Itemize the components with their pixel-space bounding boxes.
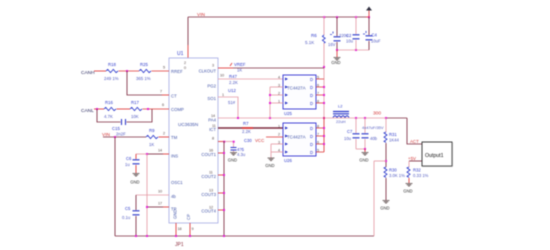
value 2n2F bbox=[116, 132, 126, 137]
label U1 bbox=[177, 51, 184, 57]
value 4.7K bbox=[104, 114, 113, 119]
pin label CLKOUT bbox=[199, 69, 217, 74]
junction x270 pin 2 bbox=[269, 94, 271, 96]
svg-text:R6: R6 bbox=[311, 33, 317, 38]
svg-text:RREF: RREF bbox=[171, 69, 183, 74]
svg-text:C15: C15 bbox=[112, 126, 120, 131]
wire stub pin 13 bbox=[218, 192, 224, 194]
pin label TP bbox=[171, 207, 177, 212]
value 4.3u bbox=[237, 152, 246, 157]
wire pin 10 row bbox=[136, 194, 169, 196]
wire left vertical to bottom bus bbox=[114, 137, 116, 236]
junction x224 at pin 12 bbox=[223, 209, 225, 211]
svg-text:C6: C6 bbox=[126, 156, 132, 161]
wire U1 bottom pin 9 bbox=[189, 223, 191, 236]
svg-text:R17: R17 bbox=[131, 100, 139, 105]
pin label REF bbox=[171, 69, 183, 74]
value 10u left bbox=[344, 136, 352, 141]
resistor R9 bbox=[146, 135, 158, 138]
junction R6 to VREF wire bbox=[323, 66, 325, 68]
capacitor C7 branch bbox=[355, 118, 357, 149]
svg-text:D: D bbox=[310, 85, 313, 90]
value 16V bbox=[328, 42, 336, 47]
svg-text:L2: L2 bbox=[338, 104, 343, 109]
svg-text:0.33 1%: 0.33 1% bbox=[413, 173, 429, 178]
junction y118 at x270 bbox=[269, 117, 271, 119]
ground below R32 bbox=[403, 184, 412, 194]
junction C21 bottom bbox=[355, 49, 357, 51]
wire R17 to pin 6 bbox=[143, 108, 170, 110]
svg-text:GND: GND bbox=[173, 209, 178, 219]
pin label COUT2 bbox=[201, 174, 216, 179]
label L2 bbox=[338, 104, 343, 109]
U25 left pin numbers bbox=[278, 76, 280, 104]
junction VIN row bbox=[114, 136, 116, 138]
node CANH label bbox=[81, 70, 95, 76]
wire inductor to corner bbox=[333, 117, 407, 119]
resistor R16 bbox=[104, 107, 116, 110]
ground below R30 bbox=[380, 201, 389, 211]
svg-text:0: 0 bbox=[184, 66, 186, 70]
svg-text:U26: U26 bbox=[284, 158, 292, 163]
ground below U26 bbox=[265, 158, 274, 168]
capacitor C30 plates bbox=[231, 148, 237, 151]
pin label PG2 bbox=[207, 84, 216, 89]
wire x324 vertical lower bbox=[323, 117, 325, 152]
junction y118 at C7 bbox=[355, 117, 357, 119]
svg-text:R32: R32 bbox=[413, 168, 421, 173]
capacitor C30 drop branch bbox=[233, 142, 235, 153]
wire pin 14 long row to inductor bbox=[218, 117, 333, 119]
svg-text:2.2K: 2.2K bbox=[229, 80, 238, 85]
wire corner to Output pin 1 bbox=[407, 118, 422, 144]
pin number 1 right bbox=[222, 93, 224, 97]
pin label COUT3 bbox=[201, 192, 216, 197]
svg-text:GND: GND bbox=[265, 163, 274, 168]
junction bus at pin 9 bbox=[189, 235, 191, 237]
svg-text:R9: R9 bbox=[149, 128, 155, 133]
svg-text:GND: GND bbox=[130, 180, 139, 185]
capacitor C8 branch bbox=[364, 118, 366, 149]
svg-text:4x47uF/35V: 4x47uF/35V bbox=[362, 125, 384, 130]
pin number 2 bbox=[163, 132, 165, 136]
label R7 bbox=[243, 121, 249, 126]
wire VREF pin 3 to R6 bbox=[218, 67, 324, 69]
label C30 bbox=[244, 138, 252, 143]
U26 left pin numbers bbox=[278, 125, 280, 153]
value 2.2K row2 bbox=[242, 129, 251, 134]
pin number 15 right bbox=[209, 171, 213, 175]
junction y118 at x324 bbox=[323, 117, 325, 119]
junction on bus at C20 bbox=[336, 16, 338, 18]
svg-text:CP: CP bbox=[186, 214, 191, 220]
value 4x47uF/35V bbox=[362, 125, 384, 130]
pin label SO1 bbox=[207, 96, 216, 101]
svg-text:Output1: Output1 bbox=[425, 153, 444, 159]
svg-text:1u: 1u bbox=[125, 162, 130, 167]
svg-text:C7: C7 bbox=[347, 129, 353, 134]
connector Output1 box bbox=[422, 142, 453, 167]
wire stub pin 15 bbox=[218, 174, 224, 176]
junction bus at x147 bbox=[146, 235, 148, 237]
wire x374 vertical to bus bbox=[373, 161, 375, 236]
svg-text:D: D bbox=[310, 77, 313, 82]
pin number 12 right bbox=[209, 206, 213, 210]
svg-text:10u: 10u bbox=[346, 39, 354, 44]
value 5.1K bbox=[305, 40, 314, 45]
svg-text:U25: U25 bbox=[284, 111, 292, 116]
pin label SA bbox=[171, 194, 176, 199]
svg-text:0.1u: 0.1u bbox=[122, 215, 131, 220]
svg-text:2.2K: 2.2K bbox=[242, 129, 251, 134]
capacitor C21 plates bbox=[353, 35, 360, 39]
svg-text:COUT3: COUT3 bbox=[201, 192, 216, 197]
wire U1 bottom pin 18 bbox=[175, 223, 177, 236]
svg-text:1K: 1K bbox=[237, 68, 242, 73]
pin number 11 right bbox=[212, 124, 216, 128]
pin number 5 bbox=[163, 66, 165, 70]
wire U25 pin 3 stub bbox=[270, 86, 283, 88]
label R47 bbox=[229, 74, 237, 79]
svg-text:7: 7 bbox=[160, 90, 162, 94]
label R31 bbox=[389, 132, 397, 137]
wire CANL to R16 bbox=[94, 108, 104, 110]
wire U26 right pin stubs bbox=[316, 128, 324, 152]
wire R9 to pin 2 bbox=[159, 136, 170, 138]
wire Output pin 2 row bbox=[409, 160, 422, 162]
capacitor C20 vertical branch bbox=[336, 17, 338, 50]
pin label COUT4 bbox=[201, 209, 216, 214]
pin number 8 right bbox=[212, 137, 214, 141]
junction x147 at pin 17 bbox=[146, 206, 148, 208]
svg-text:51#: 51# bbox=[228, 100, 236, 105]
pin number 9 bbox=[192, 227, 194, 231]
wire U25 right pin stubs bbox=[316, 79, 324, 103]
power symbol VCC arrow bbox=[366, 7, 372, 18]
resistor R6 bbox=[322, 35, 325, 43]
svg-text:5: 5 bbox=[163, 66, 165, 70]
junction x324 U26 outputs bbox=[323, 127, 325, 145]
wire R25 to pin 5 bbox=[152, 70, 170, 72]
svg-text:PA4: PA4 bbox=[208, 118, 216, 123]
wire pin 14 row bbox=[136, 153, 163, 155]
junction x224 at pin 15 bbox=[223, 174, 225, 176]
label C21 bbox=[346, 33, 352, 38]
resistor R30 bbox=[384, 167, 387, 177]
svg-text:C5: C5 bbox=[125, 206, 131, 211]
svg-text:2: 2 bbox=[278, 133, 280, 137]
wire pin 17 row bbox=[147, 206, 163, 208]
wire CANL filter loop bbox=[97, 109, 152, 122]
svg-text:10u: 10u bbox=[344, 136, 352, 141]
wire CANH to R18 bbox=[94, 70, 106, 72]
svg-text:4: 4 bbox=[278, 76, 280, 80]
svg-text:VCC: VCC bbox=[255, 138, 264, 143]
svg-text:R30: R30 bbox=[389, 168, 397, 173]
value 244 bbox=[389, 138, 399, 143]
capacitor C4 vertical branch bbox=[368, 17, 370, 50]
value 10K bbox=[131, 114, 139, 119]
wire U25 pin 2 stub bbox=[270, 94, 283, 96]
label R18 bbox=[108, 62, 116, 67]
svg-text:GND: GND bbox=[403, 189, 412, 194]
value 0.33 1% bbox=[413, 173, 429, 178]
junction divider mid bbox=[385, 160, 387, 162]
wire R30 to ground bbox=[385, 178, 387, 200]
wire top supply bus bbox=[188, 16, 369, 18]
wire stub pin 14 bbox=[163, 153, 169, 155]
pin label CP vertical bbox=[186, 214, 191, 220]
wire pin 10 to U25 pin 4 bbox=[218, 78, 283, 80]
U26 right pin numbers bbox=[317, 125, 319, 153]
svg-text:OSC1: OSC1 bbox=[171, 180, 183, 185]
svg-text:11: 11 bbox=[209, 171, 213, 175]
pin label OSC bbox=[171, 180, 183, 185]
label R9 bbox=[149, 128, 155, 133]
label R16 bbox=[105, 100, 113, 105]
wire R32 to ground bbox=[408, 178, 410, 183]
wire stub pin 12 bbox=[218, 209, 224, 211]
capacitor C5 plates bbox=[133, 211, 140, 215]
svg-text:GND: GND bbox=[331, 60, 340, 65]
svg-text:VIN: VIN bbox=[197, 12, 206, 18]
junction bus at x224 bbox=[223, 235, 225, 237]
svg-text:18: 18 bbox=[178, 227, 182, 231]
svg-text:GND: GND bbox=[380, 206, 389, 211]
wire from bus to U1 pin 20 bbox=[187, 17, 189, 58]
connector JP1 label bbox=[175, 242, 184, 248]
svg-text:1: 1 bbox=[278, 125, 280, 129]
svg-text:R47: R47 bbox=[229, 74, 237, 79]
wire pin 1 corner to y118 bbox=[218, 97, 238, 118]
label C7 bbox=[347, 129, 353, 134]
svg-text:4.3u: 4.3u bbox=[237, 152, 246, 157]
svg-text:GND: GND bbox=[228, 158, 237, 163]
junction C20 bottom bbox=[336, 49, 338, 51]
wire R6 branch vertical bbox=[323, 17, 325, 117]
ground below caps bbox=[359, 149, 368, 163]
U25 name TC4427A bbox=[287, 86, 306, 91]
svg-text:16: 16 bbox=[209, 149, 213, 153]
pin number 7 bbox=[160, 90, 162, 94]
svg-text:249 1%: 249 1% bbox=[104, 76, 119, 81]
svg-text:ACT: ACT bbox=[410, 139, 419, 144]
value 1K bbox=[149, 142, 154, 147]
svg-text:22uH: 22uH bbox=[336, 119, 346, 124]
label U26 bbox=[284, 158, 292, 163]
junction x270 pin 1 bbox=[269, 102, 271, 104]
pin label CT bbox=[171, 94, 177, 99]
svg-text:R18: R18 bbox=[108, 62, 116, 67]
junction bus at C5 bbox=[135, 235, 137, 237]
capacitor C7 plates bbox=[353, 134, 360, 138]
wire x271 vertical to ground bbox=[270, 144, 272, 158]
svg-text:U1: U1 bbox=[177, 51, 184, 57]
node 300 label bbox=[373, 111, 381, 117]
svg-text:D: D bbox=[310, 150, 313, 155]
svg-text:R25: R25 bbox=[140, 62, 148, 67]
driver U26 box bbox=[283, 123, 316, 156]
junction y118 at divider bbox=[385, 117, 387, 119]
svg-text:U12: U12 bbox=[228, 88, 236, 93]
junction pin 14 row bbox=[146, 153, 148, 155]
svg-text:JP1: JP1 bbox=[175, 242, 184, 248]
value 51 bbox=[228, 100, 236, 105]
svg-text:2n2F: 2n2F bbox=[116, 132, 126, 137]
wire stub pin 8 bbox=[218, 141, 234, 143]
svg-text:R7: R7 bbox=[243, 121, 249, 126]
value 0.1u bbox=[122, 215, 131, 220]
junction at pin 6 wire bbox=[147, 108, 149, 110]
svg-text:365 1%: 365 1% bbox=[136, 76, 151, 81]
node +24V label bbox=[410, 139, 419, 144]
junction on bus at C21 bbox=[355, 16, 357, 18]
svg-text:D: D bbox=[310, 126, 313, 131]
svg-text:R31: R31 bbox=[389, 132, 397, 137]
node VCC label red bbox=[255, 138, 264, 143]
svg-text:10: 10 bbox=[220, 74, 224, 78]
node +5V label bbox=[408, 156, 416, 161]
capacitor C20 plates bbox=[330, 32, 341, 41]
svg-text:3: 3 bbox=[212, 64, 214, 68]
svg-text:C4: C4 bbox=[372, 33, 378, 38]
IC name UC3635N bbox=[178, 122, 198, 127]
svg-text:40b: 40b bbox=[370, 136, 378, 141]
junction CANL branch bbox=[96, 108, 98, 110]
wire feedback tap bbox=[374, 160, 386, 162]
pin 20 number at top bbox=[184, 61, 186, 70]
resistor R32 branch bbox=[408, 161, 410, 167]
wire U26 pin 3 stub bbox=[271, 143, 283, 145]
pin number 10 right bbox=[220, 74, 224, 78]
wire C7 C8 bottom join bbox=[356, 148, 365, 150]
wire x147 vertical to bus bbox=[146, 154, 148, 236]
svg-text:14: 14 bbox=[158, 149, 162, 153]
pin number 14 bbox=[158, 149, 162, 153]
svg-text:1K: 1K bbox=[149, 142, 154, 147]
value 10u bbox=[346, 39, 354, 44]
label C4 bbox=[372, 33, 378, 38]
capacitor C6 plates bbox=[133, 160, 140, 164]
U26 input arrows bbox=[285, 127, 288, 154]
wire pin 11 bold to U26 pin 1 bbox=[218, 127, 283, 129]
junction x224 at pin 13 bbox=[223, 192, 225, 194]
wire R18 to R25 bbox=[119, 70, 140, 72]
svg-text:VREF: VREF bbox=[234, 62, 246, 67]
junction on bus at C4 bbox=[368, 16, 370, 18]
resistor R18 bbox=[106, 69, 118, 72]
svg-text:12: 12 bbox=[209, 206, 213, 210]
svg-text:1K44: 1K44 bbox=[389, 138, 399, 143]
junction x224 at pin 16 bbox=[223, 152, 225, 154]
wire bottom bus bbox=[115, 235, 374, 237]
capacitor C21 vertical branch bbox=[355, 17, 357, 50]
svg-text:D: D bbox=[310, 142, 313, 147]
svg-text:10K: 10K bbox=[131, 114, 139, 119]
svg-text:11: 11 bbox=[212, 124, 216, 128]
resistor R17 bbox=[130, 107, 142, 110]
svg-text:14: 14 bbox=[211, 114, 215, 118]
wire U25 pin 1 stub bbox=[270, 102, 283, 104]
svg-text:300: 300 bbox=[373, 111, 381, 117]
resistor R31 bbox=[384, 132, 387, 142]
svg-text:R16: R16 bbox=[105, 100, 113, 105]
wire x224 vertical to bus bbox=[223, 141, 225, 236]
value 10uF bbox=[371, 39, 381, 44]
value 2.2K bbox=[229, 80, 238, 85]
inductor L2 core bars bbox=[333, 112, 349, 114]
pin number 3 bbox=[212, 64, 214, 68]
wire U26 pin 2 row bbox=[266, 136, 283, 138]
svg-text:+5V: +5V bbox=[408, 156, 416, 161]
svg-text:10: 10 bbox=[158, 190, 162, 194]
wire stub pin 16 bbox=[218, 152, 224, 154]
svg-text:6: 6 bbox=[162, 103, 164, 107]
svg-text:CANH: CANH bbox=[81, 70, 95, 76]
value 4u5 bbox=[237, 147, 245, 152]
svg-text:CT: CT bbox=[171, 94, 177, 99]
pin label ICT bbox=[209, 127, 216, 132]
wire U26 pin 4 stub bbox=[271, 151, 283, 153]
junction pin 8 wire at C30 bbox=[233, 141, 235, 143]
node CANL label bbox=[81, 108, 94, 114]
junction y118 at C8 bbox=[364, 117, 366, 119]
wire cap bottom rail bbox=[337, 49, 369, 51]
pin number 14 right bbox=[211, 114, 215, 118]
label C15 bbox=[112, 126, 120, 131]
value 1uF bbox=[125, 162, 130, 167]
label R30 bbox=[389, 168, 397, 173]
junction cap ground bbox=[364, 148, 366, 150]
label VREF bbox=[230, 62, 246, 67]
svg-text:COUT2: COUT2 bbox=[201, 174, 216, 179]
node VIN row label bbox=[102, 132, 111, 138]
svg-text:CLKOUT: CLKOUT bbox=[199, 69, 217, 74]
svg-text:D: D bbox=[310, 93, 313, 98]
resistor R25 bbox=[139, 69, 151, 72]
svg-text:13: 13 bbox=[209, 189, 213, 193]
label R25 bbox=[140, 62, 148, 67]
label U12 bbox=[228, 88, 236, 93]
label R17 bbox=[131, 100, 139, 105]
svg-text:2: 2 bbox=[163, 132, 165, 136]
value 365 1% bbox=[136, 76, 151, 81]
svg-text:INS: INS bbox=[171, 154, 178, 159]
U25 output marks bbox=[310, 77, 313, 106]
capacitor C4 plates bbox=[363, 31, 373, 40]
svg-text:1: 1 bbox=[222, 93, 224, 97]
pin number 6 bbox=[162, 103, 164, 107]
pin label INS bbox=[171, 154, 178, 159]
junction y118 at x238 bbox=[237, 117, 239, 119]
pin label TM bbox=[171, 135, 178, 140]
capacitor C8 plates bbox=[362, 134, 369, 138]
wire divider top bbox=[385, 118, 387, 132]
svg-text:D: D bbox=[310, 134, 313, 139]
junction pin 8 wire at x224 bbox=[223, 141, 225, 143]
wire VIN row to R9 bbox=[103, 136, 146, 138]
svg-text:SO1: SO1 bbox=[207, 96, 216, 101]
value 1K bbox=[237, 68, 242, 73]
label U25 bbox=[284, 111, 292, 116]
svg-text:D: D bbox=[310, 101, 313, 106]
svg-text:COUT1: COUT1 bbox=[201, 152, 216, 157]
svg-text:C2: C2 bbox=[346, 33, 352, 38]
ground below C6 bbox=[130, 174, 139, 185]
value 22uH bbox=[336, 119, 346, 124]
svg-text:TC4427A: TC4427A bbox=[287, 86, 306, 91]
svg-text:4.7K: 4.7K bbox=[104, 114, 113, 119]
